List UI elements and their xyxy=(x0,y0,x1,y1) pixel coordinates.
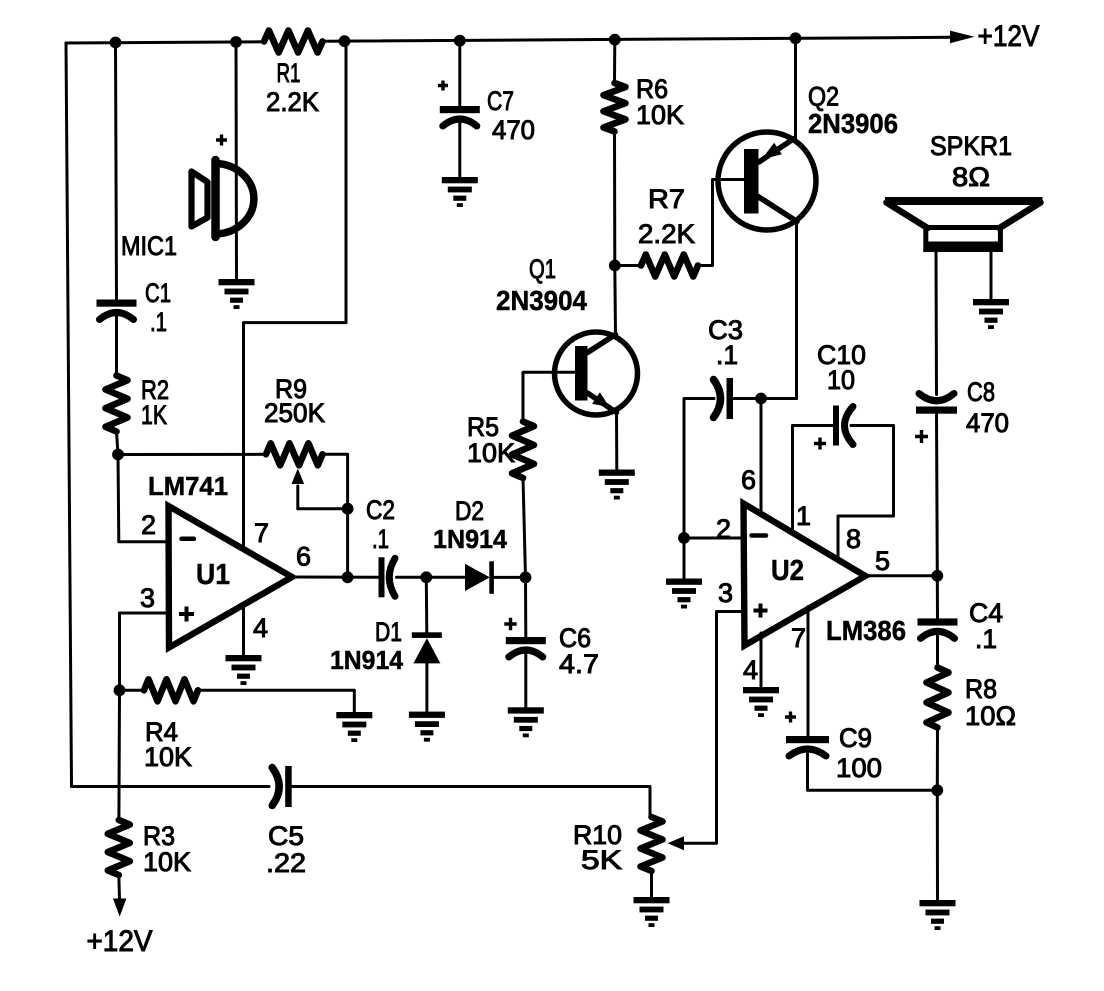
wire wiper to node xyxy=(298,507,348,510)
transistor Q2 2N3906 xyxy=(718,132,816,230)
wire node to R7 xyxy=(615,264,641,267)
wire rail to MIC1 and down to ground xyxy=(235,42,239,279)
wire R5 to Q1 base xyxy=(523,372,577,421)
ground U1 pin 4 xyxy=(226,655,262,685)
wire node down to U2 pin 6 xyxy=(760,399,763,515)
svg-text:6: 6 xyxy=(296,542,311,572)
ground Q1 emitter xyxy=(599,470,635,500)
resistor R6 (10K) xyxy=(604,83,626,132)
wire output node down to C4 xyxy=(936,576,939,619)
capacitor C2 (.1) xyxy=(379,557,385,597)
node dot C3/pin6/Q2 xyxy=(755,393,767,405)
svg-text:10K: 10K xyxy=(143,847,191,877)
wire R10 to ground xyxy=(650,871,653,897)
svg-text:R1: R1 xyxy=(277,58,301,88)
wire U2 pin 3 to R10 wiper xyxy=(684,612,744,844)
capacitor C1 (.1) xyxy=(97,300,137,307)
svg-text:.1: .1 xyxy=(975,624,997,654)
plus sign C8 xyxy=(915,430,928,443)
svg-text:D2: D2 xyxy=(455,496,484,526)
plus sign MIC1 xyxy=(216,135,227,146)
ground R4 xyxy=(336,712,372,742)
capacitor C3 (.1) xyxy=(727,378,734,419)
svg-text:C8: C8 xyxy=(967,377,995,407)
node dot rail/C7 xyxy=(454,35,466,47)
svg-text:SPKR1: SPKR1 xyxy=(930,131,1012,161)
capacitor C4 (.1) xyxy=(918,618,958,625)
wire node to ground xyxy=(936,790,939,899)
wire speaker to ground xyxy=(990,252,993,299)
wire mic node to C1 xyxy=(116,43,117,300)
wire detector node up to R5 xyxy=(523,478,526,577)
wire +12V top rail left segment xyxy=(66,42,264,43)
svg-text:2.2K: 2.2K xyxy=(638,219,695,249)
svg-text:10K: 10K xyxy=(144,742,192,772)
svg-text:R7: R7 xyxy=(648,184,685,214)
wire Q1 collector to R6/R7 node xyxy=(613,266,617,335)
svg-text:U1: U1 xyxy=(196,559,230,591)
wire R8 down to node xyxy=(936,728,939,791)
svg-text:4: 4 xyxy=(743,655,758,685)
svg-text:C9: C9 xyxy=(839,723,872,753)
svg-text:5K: 5K xyxy=(581,845,622,875)
svg-text:C5: C5 xyxy=(268,821,304,851)
svg-text:7: 7 xyxy=(254,518,269,548)
node dot D2/R5/C6 xyxy=(520,572,532,584)
wire R2 to node xyxy=(117,432,119,455)
svg-text:2: 2 xyxy=(716,514,731,544)
pot wiper arrow R10 xyxy=(668,836,685,850)
svg-text:+12V: +12V xyxy=(978,20,1040,53)
svg-text:8Ω: 8Ω xyxy=(952,162,990,192)
wire node down to D1 xyxy=(425,577,429,632)
wire R9 right to wiper node xyxy=(323,454,348,508)
node dot rail/R1 right xyxy=(339,35,351,47)
node dot C9/R8/ground xyxy=(931,784,943,796)
node dot R6/R7/Q1 xyxy=(609,260,621,272)
wire node to U1 pin 2 xyxy=(118,455,169,542)
node dot R9 wiper junction xyxy=(342,503,354,515)
wire rail to Q2 emitter xyxy=(794,38,797,141)
wire C5 to R10 top xyxy=(292,787,651,818)
plus sign C9 xyxy=(785,712,796,723)
svg-text:10Ω: 10Ω xyxy=(965,701,1016,731)
svg-text:7: 7 xyxy=(791,623,806,653)
node dot U2 pin2/ground xyxy=(678,532,690,544)
resistor R5 (10K) xyxy=(512,422,534,479)
svg-text:MIC1: MIC1 xyxy=(121,231,177,261)
wire D2 to detector node xyxy=(494,576,526,579)
diode D2 1N914 (series) xyxy=(465,564,490,591)
plus sign C10 xyxy=(814,438,826,450)
wire U2 pin 1 up xyxy=(793,426,834,534)
ground R8/C9 node xyxy=(920,900,956,930)
wire +12V top rail right segment xyxy=(323,37,952,41)
wire node to U2 pin 2 xyxy=(684,537,744,540)
wire Q1 emitter to ground xyxy=(615,411,618,469)
svg-text:C1: C1 xyxy=(145,278,171,308)
op-amp U1 LM741 triangle xyxy=(169,506,293,648)
ground MIC1 xyxy=(219,279,255,309)
arrowhead +12V rail xyxy=(950,31,975,44)
wire node to ground xyxy=(683,538,686,579)
plus sign C6 xyxy=(504,618,516,630)
svg-text:470: 470 xyxy=(492,115,535,145)
arrow R3 to +12V xyxy=(117,875,121,899)
wire node to R4 xyxy=(120,689,145,692)
wire C1 to R2 xyxy=(115,316,118,376)
svg-text:.1: .1 xyxy=(716,340,738,370)
svg-text:2N3904: 2N3904 xyxy=(496,285,588,316)
wire wiper node down to U1 output node xyxy=(346,509,349,578)
capacitor C10 (10) xyxy=(833,406,839,446)
plus sign C7 xyxy=(438,81,448,91)
svg-text:Q1: Q1 xyxy=(529,254,556,284)
svg-text:6: 6 xyxy=(741,465,756,495)
node dot rail/C1 xyxy=(110,37,122,49)
wire U2 pin 7 down to C9 xyxy=(807,607,810,736)
svg-text:2: 2 xyxy=(141,510,156,540)
wire output node up to C8 xyxy=(935,414,939,576)
svg-text:+12V: +12V xyxy=(87,925,153,958)
svg-text:1: 1 xyxy=(796,501,811,531)
svg-text:4: 4 xyxy=(253,613,268,643)
svg-text:4.7: 4.7 xyxy=(559,649,599,679)
minus sign U2 xyxy=(752,533,767,538)
node dot U2 output xyxy=(931,570,943,582)
svg-text:LM386: LM386 xyxy=(826,615,906,646)
resistor R9 (250K pot) xyxy=(266,443,323,465)
wire U1 output to C2 xyxy=(292,576,379,579)
wire U1 pin 3 to R4 node xyxy=(120,613,169,690)
wire C6 to ground xyxy=(524,653,527,707)
wire R4 to ground xyxy=(198,690,354,711)
node dot R2/R9/pin2 xyxy=(112,449,124,461)
capacitor C5 (.22) xyxy=(285,766,292,807)
wire R7 to Q2 base xyxy=(698,180,746,266)
node dot pin3/R4/R3 xyxy=(114,684,126,696)
wire U2 pin 4 to ground xyxy=(760,633,763,687)
wire R6 to node xyxy=(613,132,616,266)
ground U2 pin 4 xyxy=(743,687,779,717)
wire U1 pin 4 to ground xyxy=(242,603,245,655)
svg-text:10: 10 xyxy=(827,365,855,395)
plus sign U2 xyxy=(754,604,768,618)
svg-text:5: 5 xyxy=(875,546,890,576)
wire rail to C7 xyxy=(458,41,461,106)
wire node down to C6 xyxy=(524,577,527,637)
wire node to R9 left xyxy=(118,453,266,456)
svg-text:2.2K: 2.2K xyxy=(266,87,319,117)
capacitor C7 (470) xyxy=(440,106,480,113)
resistor R1 (2.2K, in top rail) xyxy=(264,31,323,53)
svg-text:250K: 250K xyxy=(264,398,325,428)
node dot rail/R6 xyxy=(609,34,621,46)
node dot rail/Q2 emitter xyxy=(790,32,802,44)
wire C10 to U2 pin 8 xyxy=(838,426,894,561)
wire U1 pin 7 to +12V rail xyxy=(244,41,347,548)
svg-text:.1: .1 xyxy=(372,524,389,554)
diode D1 1N914 (shunt) xyxy=(412,632,442,638)
wire C2 to D1/D2 node xyxy=(397,576,466,579)
ground SPKR1 xyxy=(973,299,1009,329)
wire C9 to output-return node xyxy=(808,753,938,790)
svg-text:Q2: Q2 xyxy=(808,82,839,112)
svg-text:100: 100 xyxy=(836,753,882,783)
wire C4 to R8 xyxy=(936,634,939,668)
svg-text:3: 3 xyxy=(718,578,733,608)
svg-text:2N3906: 2N3906 xyxy=(808,108,898,139)
resistor R3 (10K) xyxy=(108,820,130,875)
node dot C2/D1/D2 xyxy=(420,571,432,583)
svg-text:1N914: 1N914 xyxy=(330,645,404,675)
svg-text:8: 8 xyxy=(846,524,861,554)
resistor R8 (10 ohm) xyxy=(927,668,949,728)
svg-text:R8: R8 xyxy=(965,674,997,704)
capacitor C6 (4.7) xyxy=(506,637,546,644)
capacitor C8 (470) xyxy=(916,407,957,414)
wire Q2 collector down to switched node xyxy=(795,222,798,399)
node dot rail/MIC1 xyxy=(230,36,242,48)
ground U2 pin 2 xyxy=(666,579,702,609)
svg-text:C2: C2 xyxy=(366,495,395,525)
capacitor C9 (100) xyxy=(786,736,829,743)
speaker SPKR1 symbol xyxy=(885,197,1043,205)
wire D1 to ground xyxy=(425,663,428,711)
resistor R10 (5K pot) xyxy=(641,817,663,871)
wire mic-node left rail down to C5 row xyxy=(66,43,269,787)
svg-text:.22: .22 xyxy=(266,848,306,878)
node dot output/R9 net xyxy=(342,571,354,583)
svg-text:1K: 1K xyxy=(141,400,167,430)
plus sign U1 xyxy=(179,607,194,622)
minus sign U1 xyxy=(182,537,195,542)
svg-text:U2: U2 xyxy=(771,555,804,587)
svg-text:LM741: LM741 xyxy=(148,471,228,501)
svg-text:D1: D1 xyxy=(375,617,402,647)
ground R10 xyxy=(634,897,670,927)
svg-text:C7: C7 xyxy=(487,86,514,116)
pot wiper arrow R9 xyxy=(296,486,299,509)
svg-text:470: 470 xyxy=(966,408,1009,438)
resistor R2 (1K) xyxy=(106,376,128,432)
ground C6 xyxy=(508,707,544,737)
svg-text:10K: 10K xyxy=(636,100,684,130)
microphone MIC1 symbol xyxy=(192,172,208,227)
svg-text:3: 3 xyxy=(140,583,155,613)
wire U2 pin 5 to output node xyxy=(865,574,938,577)
svg-text:.1: .1 xyxy=(150,307,167,337)
wire node down to R3 xyxy=(117,690,121,820)
resistor R4 (10K) xyxy=(144,679,198,701)
svg-text:10K: 10K xyxy=(467,438,515,468)
ground C7 xyxy=(442,177,478,207)
ground D1 xyxy=(409,712,445,742)
wire C3 left to ground node xyxy=(684,399,714,539)
wire C7 to ground xyxy=(458,122,461,177)
resistor R7 (2.2K) xyxy=(641,255,698,277)
wire rail to R6 xyxy=(613,40,616,83)
op-amp U2 LM386 triangle xyxy=(744,504,866,646)
svg-text:1N914: 1N914 xyxy=(433,524,508,554)
wire switched node to C3 xyxy=(733,397,797,400)
wire C8 up to speaker xyxy=(935,252,939,395)
transistor Q1 2N3904 xyxy=(555,332,638,415)
